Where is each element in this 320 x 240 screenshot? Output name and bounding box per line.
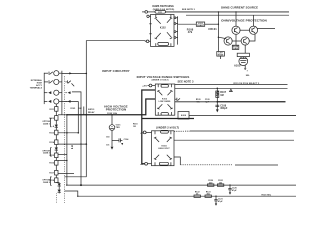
wire chain bottom dashed (56, 194, 58, 204)
delta mark (230, 89, 233, 91)
wire Q101 emitter down (235, 34, 237, 45)
wire SW101 stub (83, 107, 85, 115)
svg-text:INPUT VOLTAGE RANGE SWITCHES: INPUT VOLTAGE RANGE SWITCHES (137, 75, 190, 79)
pin circles K102 right (174, 17, 176, 38)
svg-text:7: 7 (247, 71, 249, 73)
svg-text:1M: 1M (220, 94, 223, 97)
wire bottom line 2 (65, 191, 297, 196)
svg-text:R105: R105 (71, 108, 76, 110)
relay K104 contact bottom-left (154, 155, 159, 166)
wire (55, 158, 57, 161)
resistor R123 inline (205, 191, 211, 197)
svg-text:R117: R117 (49, 173, 54, 175)
label R110 left of K104 (133, 124, 138, 129)
wire solid y=165 (235, 164, 278, 166)
svg-text:C120: C120 (232, 188, 237, 190)
svg-text:K102: K102 (160, 28, 166, 30)
wire rail x=78 (62, 100, 78, 102)
transistor Q103 (224, 37, 232, 45)
relay K104 coil box bottom (159, 162, 168, 165)
node dot Q101 bus (235, 11, 236, 12)
connector bracket (43, 73, 45, 104)
svg-text:A106: A106 (181, 114, 187, 117)
relay K103 coil box top (161, 85, 168, 88)
wire node to Q103 (218, 37, 226, 38)
resistor R113 (49, 130, 58, 135)
ground arrow (111, 147, 114, 150)
tap wire y=176.8 (65, 176, 87, 178)
tap wire y=170.5 (58, 172, 74, 174)
tube pins (244, 65, 248, 72)
input jack J4 (44, 99, 59, 104)
tap wire y=160.5 (58, 155, 68, 162)
resistor R116 (49, 161, 58, 166)
resistor R108 label (187, 27, 194, 34)
svg-text:R110: R110 (133, 124, 138, 126)
wire heavy line y=103 (175, 101, 218, 103)
pin ticks K102 left edge (149, 23, 151, 25)
wire jacks to bus (59, 73, 62, 101)
relay K103 contact bottom-right (168, 104, 173, 115)
node dot Q103 (218, 37, 219, 38)
wire (55, 135, 57, 140)
svg-text:R118: R118 (49, 180, 54, 182)
node dot (217, 88, 219, 90)
svg-text:1M: 1M (133, 126, 136, 128)
labels R-C pair (196, 99, 210, 103)
svg-text:HIGH: HIGH (37, 83, 43, 85)
relay K102 contact top-right (167, 15, 172, 23)
node dot (77, 196, 78, 197)
option bracket 1 (42, 118, 51, 126)
relay K104 contact top-right (167, 131, 172, 142)
switch box LIST MODE LOOP (217, 52, 225, 60)
wire heavy line y=103 right (217, 101, 285, 103)
svg-text:SEL: SEL (246, 75, 251, 77)
switch contact row4 (65, 100, 70, 102)
resistor R122 inline (194, 191, 200, 197)
svg-text:OHMS CURRENT SOURCE: OHMS CURRENT SOURCE (221, 5, 258, 9)
wire HV heavy line main (67, 99, 155, 115)
svg-text:CR101: CR101 (208, 27, 217, 31)
transistor Q101 (232, 26, 240, 34)
input jack J1 (44, 71, 59, 76)
transistor Q102 (249, 26, 257, 34)
diode CR113 (58, 183, 61, 187)
transistor Q106 at K103 exit (175, 98, 180, 101)
wire K104 exit y=140 (174, 139, 294, 141)
svg-text:L101: L101 (198, 23, 204, 25)
node dot (66, 184, 67, 185)
wire bus lower (186, 14, 289, 16)
relay K103 contact bottom-left (157, 104, 162, 115)
title: HIGH VOLTAGE PROTECTION (104, 104, 127, 111)
option bracket 3 (42, 177, 51, 185)
wire (55, 127, 57, 130)
node dot bold (80, 184, 82, 186)
svg-text:LOW OHMS: LOW OHMS (159, 101, 171, 103)
svg-text:V101: V101 (116, 125, 122, 127)
switch S102 on HV line (88, 109, 95, 114)
resistor R107 (216, 91, 227, 97)
relay K104 contact top-left (154, 131, 159, 142)
wire Q104 to Q102 (249, 33, 255, 41)
relay K103 enclosure (155, 84, 175, 115)
svg-text:R120: R120 (208, 180, 213, 182)
svg-text:CHEK: CHEK (233, 48, 239, 50)
spark gap V101 (109, 114, 115, 130)
relay K103 label (159, 98, 171, 102)
svg-text:K104: K104 (161, 144, 167, 147)
relay K102 contact bottom-right (167, 32, 172, 46)
svg-text:OPTION: OPTION (42, 150, 50, 152)
wire Q101 base feed (235, 12, 237, 27)
svg-text:SW101: SW101 (88, 109, 95, 111)
svg-text:OPTION: OPTION (42, 121, 50, 123)
pin circle on coil line (142, 11, 155, 14)
svg-text:RELAY: RELAY (88, 111, 95, 114)
wire (56, 182, 59, 184)
svg-text:C104: C104 (124, 138, 130, 141)
relay K104 label (158, 144, 170, 149)
switch contact row3 (65, 92, 70, 94)
relay K102 contact top-left (155, 15, 161, 24)
node dot heavy (216, 101, 218, 103)
wire rail x=85.9 input (85, 73, 87, 176)
svg-text:R116: R116 (49, 163, 54, 165)
wire bottom line 1 (67, 184, 296, 186)
pin circle K103 left (142, 84, 155, 87)
resistor R105 labels (71, 108, 82, 110)
wire rail x=70.3 (77, 101, 79, 132)
resistor R117 (49, 170, 58, 175)
relay K103 contact top-left (157, 84, 162, 95)
wire K104 exit y=132 dashed then solid (174, 130, 294, 132)
svg-text:R115 1M R116 SELECT 3: R115 1M R116 SELECT 3 (234, 83, 261, 85)
wire Q103-Q104 link (232, 40, 242, 42)
pin circle K104 lower (140, 162, 151, 166)
svg-text:PROTECTION: PROTECTION (106, 108, 127, 112)
svg-text:150: 150 (106, 137, 109, 139)
tap wire y=160.5 (58, 160, 67, 162)
wire V101 to ground (111, 130, 113, 147)
resistor R115 (49, 153, 58, 158)
relay K102 coil box top (155, 10, 166, 13)
wire (55, 111, 57, 115)
svg-text:C105: C105 (205, 99, 210, 101)
svg-text:(UNDER 2 kVOLT): (UNDER 2 kVOLT) (156, 125, 179, 129)
svg-text:(UNDER 1 kVOLT): (UNDER 1 kVOLT) (152, 80, 169, 82)
diode CR114 (58, 190, 61, 194)
svg-text:R113: R113 (49, 132, 54, 134)
svg-text:K103: K103 (162, 98, 168, 100)
svg-text:R125 SEL: R125 SEL (262, 195, 272, 197)
svg-text:OHMS SWITCHING: OHMS SWITCHING (152, 6, 174, 8)
wire (55, 145, 57, 148)
wire line y=116 (189, 114, 240, 116)
inductor L101 box (196, 22, 205, 27)
svg-text:R122: R122 (195, 191, 200, 193)
node dot bus (218, 11, 219, 12)
wire (55, 175, 57, 178)
relay K103 contact top-right (168, 84, 173, 95)
relay K102 coil box bottom (158, 42, 169, 45)
svg-text:OHM/VOLTAGE PROTECTION: OHM/VOLTAGE PROTECTION (221, 19, 267, 23)
relay K104 contact bottom-right (167, 155, 172, 166)
node dot (86, 114, 88, 116)
capacitor C108 (215, 104, 228, 110)
wire (55, 150, 57, 153)
svg-text:INPUT CIRCUITRY: INPUT CIRCUITRY (102, 69, 129, 73)
svg-text:R123: R123 (206, 191, 211, 193)
svg-text:C121: C121 (218, 199, 223, 201)
option bracket 2 (42, 148, 51, 156)
resistor R112 (49, 116, 58, 121)
svg-text:R111: R111 (49, 109, 54, 111)
label: OHMS SWITCHING title (152, 6, 174, 11)
diode CR111 (53, 125, 58, 128)
box A106 (178, 112, 189, 120)
wire Q102 right stub (257, 28, 275, 30)
wire L101 to node (205, 23, 219, 25)
wire Q104 emitter to plate box (244, 45, 246, 54)
node dot L101 (218, 24, 219, 25)
node dot (66, 114, 68, 116)
tap wire y=139.9 (58, 132, 87, 145)
svg-text:MODE: MODE (218, 55, 224, 57)
relay K102 enclosure (151, 15, 175, 47)
wire input rail to K102 (86, 41, 146, 74)
svg-text:R112: R112 (49, 118, 54, 120)
wire input top row with arrow (62, 72, 87, 74)
input jack J2 (44, 79, 59, 84)
svg-text:SEE NOTE 3: SEE NOTE 3 (177, 80, 194, 84)
resistor R121 inline (217, 180, 223, 186)
resistor R120 inline (208, 180, 214, 186)
capacitor C104 (112, 138, 123, 145)
wire (55, 165, 57, 170)
ground arrow (216, 109, 219, 112)
relay K103 coil box bottom (161, 113, 168, 116)
wire node drop (217, 12, 219, 52)
wire line y=115.4 right (240, 114, 296, 116)
wire K104 exit y=157 (174, 157, 180, 165)
connector bracket label (30, 79, 43, 90)
electrometer tube V102 (239, 57, 248, 66)
pin circle box top-left (147, 15, 151, 17)
wire line y=86.3 (175, 84, 288, 86)
resistor R111 (49, 107, 58, 112)
svg-text:HIGH VOLT: HIGH VOLT (158, 148, 170, 150)
pin circle K104 upper (140, 131, 151, 134)
switch S-mode box MODE CHEK (232, 45, 239, 50)
wire K102 exits right (176, 16, 178, 44)
svg-text:+2kV: +2kV (142, 85, 147, 87)
svg-text:OPTION: OPTION (42, 180, 50, 182)
resistor R118 (49, 178, 58, 183)
diode CR112 (55, 148, 58, 151)
svg-text:+2k: +2k (140, 164, 144, 166)
wire jog to L101 (178, 23, 197, 25)
contact arrows mid (71, 146, 73, 149)
transistor Q104 (241, 37, 249, 45)
wire bus upper (166, 11, 290, 13)
wire Q101-Q102 link (240, 29, 250, 31)
relay K104 coil box top (161, 130, 169, 133)
svg-text:R121: R121 (218, 180, 223, 182)
tube plate box (237, 53, 249, 56)
svg-text:300pF: 300pF (220, 107, 228, 110)
svg-text:EXTERNAL: EXTERNAL (31, 79, 43, 82)
switch contact row2 (65, 80, 74, 86)
capacitor C121 (214, 196, 223, 206)
wire input bus dashed lower (64, 76, 66, 204)
svg-text:R115: R115 (49, 155, 54, 157)
resistor R114 (49, 140, 58, 145)
pin circle box bottom-left (146, 40, 150, 43)
svg-text:R105: R105 (196, 99, 201, 101)
svg-text:LIST: LIST (219, 53, 224, 55)
svg-text:SEE NOTE 3: SEE NOTE 3 (182, 9, 196, 11)
wire rail x=74.5 (72, 92, 81, 185)
wire dashed y=164.8 (180, 164, 232, 166)
wire line y=88.3 (175, 87, 288, 89)
wire rail x=66.8 (66, 115, 68, 185)
wire (58, 186, 60, 190)
relay K104 enclosure (152, 131, 175, 166)
svg-text:TKD: TKD (116, 127, 121, 129)
wire heavy loop K103 (142, 90, 156, 164)
resistor chain top wire (55, 104, 57, 107)
wire input bus vertical (61, 71, 63, 115)
svg-text:A: A (53, 125, 55, 128)
svg-text:R114: R114 (49, 141, 55, 144)
wire (55, 120, 57, 124)
svg-text:101: 101 (106, 145, 109, 147)
wire Q102 base feed (253, 15, 255, 26)
wire heavy branch to A106 (142, 118, 194, 120)
wire vertical x=217.3 (216, 88, 218, 109)
relay K102 contact bottom-left (155, 33, 161, 46)
input jack J3 (44, 90, 59, 95)
wire HV heavy line (58, 114, 67, 116)
capacitor C120 (228, 184, 237, 194)
svg-text:300: 300 (209, 182, 212, 184)
